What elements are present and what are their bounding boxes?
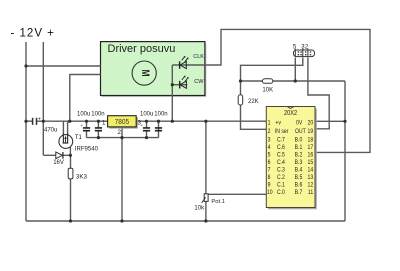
LED D2 CLK	[180, 54, 205, 69]
svg-text:16: 16	[308, 152, 314, 159]
svg-text:7: 7	[268, 167, 271, 174]
svg-text:7805: 7805	[115, 117, 130, 126]
svg-text:Driver posuvu: Driver posuvu	[108, 43, 176, 55]
svg-text:C.7: C.7	[277, 137, 285, 144]
wire connector pin3	[241, 58, 303, 82]
junction plus rail / 470u	[42, 120, 45, 123]
junction minus rail / top rail	[24, 120, 27, 123]
wire right vertical to ground	[344, 81, 346, 221]
wire connector pin5	[294, 58, 296, 82]
svg-text:2: 2	[117, 129, 121, 136]
svg-text:B.0: B.0	[295, 137, 303, 144]
wire diode branch	[43, 154, 70, 156]
junction C3 bottom	[145, 136, 148, 139]
wire LCD pin20	[315, 120, 345, 122]
wire cap C4 stubs	[158, 121, 160, 137]
module U1 Driver posuvu box	[101, 42, 207, 98]
svg-text:B.6: B.6	[295, 182, 303, 189]
transistor Q1 T1 IRF9540	[59, 134, 99, 153]
svg-text:20: 20	[308, 120, 314, 127]
svg-text:+: +	[81, 124, 84, 129]
svg-text:B.3: B.3	[295, 160, 303, 167]
junction C2 top	[97, 120, 100, 123]
svg-text:10k: 10k	[194, 204, 205, 211]
svg-text:3: 3	[268, 137, 271, 144]
svg-text:22K: 22K	[248, 99, 259, 105]
svg-text:10: 10	[267, 190, 273, 197]
junction 22K / 10K	[239, 79, 242, 82]
junction LED branch / top rail	[171, 120, 174, 123]
regulator U2 7805	[102, 116, 141, 137]
junction C1 top	[85, 120, 88, 123]
wire 3K3 branch	[70, 155, 72, 221]
svg-text:1: 1	[268, 120, 271, 127]
wire supply to driver box	[26, 65, 101, 67]
motor symbol in driver box	[132, 61, 156, 85]
svg-text:13: 13	[308, 175, 314, 182]
svg-text:+: +	[38, 116, 41, 122]
svg-text:100n: 100n	[91, 111, 104, 117]
junction diode / transistor / 3K3	[69, 154, 72, 157]
capacitor C4 100n	[154, 111, 167, 130]
svg-text:470u: 470u	[44, 128, 57, 134]
svg-text:9: 9	[268, 182, 271, 189]
svg-text:C.6: C.6	[277, 145, 285, 152]
svg-text:- 12V +: - 12V +	[11, 28, 55, 40]
junction minus rail / driver supply	[24, 64, 27, 67]
svg-text:100n: 100n	[154, 111, 167, 117]
capacitor C1 100u	[77, 111, 90, 130]
svg-text:CLK: CLK	[193, 54, 204, 60]
svg-text:Pot.1: Pot.1	[211, 199, 225, 205]
svg-text:B.7: B.7	[295, 190, 303, 197]
svg-text:12: 12	[308, 182, 314, 189]
diode D1 16V	[53, 152, 64, 166]
resistor R3 22K	[238, 95, 258, 105]
wire cap C3 stubs	[146, 121, 148, 137]
wire pot branch vertical	[205, 121, 207, 221]
junction connector pin5 / 10K wire	[294, 79, 297, 82]
wire bottom ground rail	[26, 220, 345, 222]
wire LCD pin19 to connector pin2	[308, 58, 329, 129]
junction 3K3 / ground rail	[69, 219, 72, 222]
wire 10K net	[241, 80, 346, 82]
junction LCD pin20 / right vertical	[343, 120, 346, 123]
svg-text:14: 14	[308, 167, 314, 174]
junction pot / ground rail	[204, 219, 207, 222]
svg-text:C.3: C.3	[277, 167, 285, 174]
capacitor C2 100n	[91, 111, 104, 130]
wire 22K branch to LCD pin2	[241, 81, 267, 129]
svg-text:T1: T1	[75, 135, 83, 141]
wire left (-) rail vertical	[25, 42, 27, 221]
svg-text:+: +	[141, 124, 144, 129]
svg-text:OUT: OUT	[295, 128, 306, 135]
svg-text:100u: 100u	[140, 111, 153, 117]
svg-text:C.5: C.5	[277, 152, 285, 159]
capacitor C3 100u	[140, 111, 153, 130]
junction pot branch / top rail	[204, 120, 207, 123]
junction C2 bottom	[97, 136, 100, 139]
svg-text:8: 8	[268, 175, 271, 182]
wire plus (+) rail vertical	[42, 42, 44, 155]
junction 7805 gnd / cap gnd rail	[120, 136, 123, 139]
connector J1 serial 5 3 2	[293, 44, 315, 56]
wire pot wiper to LCD pin10	[208, 193, 266, 195]
wire CW stub	[172, 84, 187, 86]
svg-text:6: 6	[268, 160, 271, 167]
svg-text:2: 2	[268, 128, 271, 135]
svg-text:10K: 10K	[262, 88, 273, 94]
svg-text:1: 1	[102, 119, 106, 126]
wire caps ground rail	[87, 137, 159, 139]
junction driver return / top rail	[68, 120, 71, 123]
svg-text:15: 15	[308, 160, 314, 167]
svg-text:CW: CW	[194, 79, 204, 85]
svg-text:100u: 100u	[77, 111, 90, 117]
junction C4 top	[157, 120, 160, 123]
wire driver box return	[70, 75, 101, 122]
junction CW LED	[171, 83, 174, 86]
junction 7805 gnd / ground rail	[120, 219, 123, 222]
wire top +V rail	[26, 120, 266, 122]
wire CLK net	[172, 29, 370, 152]
svg-text:5: 5	[268, 152, 271, 159]
svg-text:C.0: C.0	[277, 190, 285, 197]
LED D3 CW	[180, 75, 205, 88]
resistor R1 3K3	[68, 168, 87, 180]
svg-text:B.4: B.4	[295, 167, 303, 174]
module U3 LCD 20x2 box	[266, 107, 317, 210]
wire cap C1 stubs	[86, 121, 88, 137]
svg-text:18: 18	[308, 137, 314, 144]
wire LED internal vertical	[171, 65, 173, 121]
svg-text:3K3: 3K3	[76, 173, 88, 180]
svg-text:C.1: C.1	[277, 182, 285, 189]
junction C3 top	[145, 120, 148, 123]
svg-text:11: 11	[308, 190, 313, 197]
wire 7805 ground pin	[121, 127, 123, 221]
svg-text:IN ser: IN ser	[275, 128, 289, 135]
svg-text:C.2: C.2	[277, 175, 285, 182]
resistor R2 10K	[262, 79, 273, 94]
wire transistor bottom pin	[68, 143, 70, 155]
svg-text:19: 19	[308, 128, 314, 135]
svg-text:IRF9540: IRF9540	[75, 146, 99, 152]
svg-text:M: M	[138, 70, 150, 77]
svg-text:B.1: B.1	[295, 145, 303, 152]
svg-text:B.5: B.5	[295, 175, 303, 182]
svg-text:B.2: B.2	[295, 152, 303, 159]
svg-text:17: 17	[308, 145, 314, 152]
potentiometer Pot.1 10k	[194, 194, 225, 212]
svg-text:C.4: C.4	[277, 160, 286, 167]
svg-text:16V: 16V	[53, 160, 64, 166]
wire cap C2 stubs	[97, 121, 99, 137]
svg-text:20X2: 20X2	[284, 109, 297, 117]
wire transistor top pins	[63, 121, 67, 143]
svg-text:0V: 0V	[296, 120, 302, 127]
svg-text:+v: +v	[275, 120, 281, 127]
capacitor C5 470u	[33, 116, 58, 133]
